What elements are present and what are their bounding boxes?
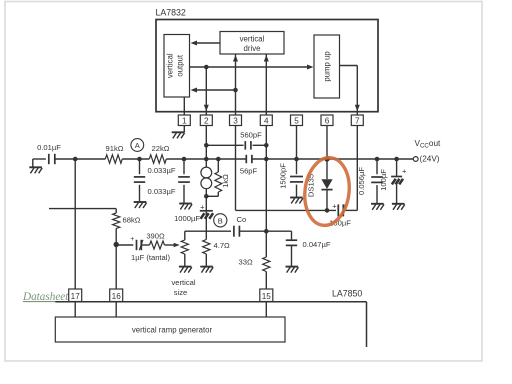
- pin 4 of LA7832: [260, 115, 272, 126]
- svg-text:100µF: 100µF: [379, 169, 388, 191]
- wire 22k to 56pF: [166, 158, 246, 160]
- junction at pin3 column: [233, 88, 238, 93]
- svg-text:pump up: pump up: [323, 51, 332, 82]
- svg-text:68kΩ: 68kΩ: [123, 216, 141, 225]
- wire 390 to wiper: [165, 244, 175, 246]
- arrow into pin 2: [204, 105, 209, 112]
- svg-text:4: 4: [264, 117, 269, 126]
- svg-text:LA7850: LA7850: [332, 289, 362, 299]
- svg-text:B: B: [218, 216, 223, 225]
- svg-text:vertical: vertical: [240, 35, 265, 44]
- junction pin6: [324, 156, 329, 161]
- svg-text:4.7Ω: 4.7Ω: [214, 241, 231, 250]
- svg-text:Co: Co: [237, 215, 247, 224]
- svg-text:1µF (tantal): 1µF (tantal): [131, 253, 170, 262]
- svg-text:size: size: [174, 288, 188, 297]
- junction 0.056uF: [375, 157, 380, 162]
- svg-text:+: +: [332, 201, 337, 210]
- pin 3 of LA7832: [230, 115, 242, 126]
- junction diode bottom: [325, 208, 330, 213]
- wire drive-to-output: [196, 42, 220, 44]
- svg-text:0.033µF: 0.033µF: [147, 166, 175, 175]
- svg-text:33Ω: 33Ω: [239, 258, 253, 267]
- svg-text:91kΩ: 91kΩ: [106, 144, 124, 153]
- svg-text:0.033µF: 0.033µF: [147, 187, 175, 196]
- svg-text:3: 3: [233, 117, 238, 126]
- junction 1k top: [216, 157, 221, 162]
- svg-text:2: 2: [204, 117, 209, 126]
- junction 68k bottom: [114, 242, 119, 247]
- svg-text:vertical: vertical: [171, 278, 195, 287]
- svg-text:vertical ramp generator: vertical ramp generator: [132, 326, 213, 335]
- capacitor 1500pF: [290, 177, 303, 182]
- wire 91k-22k: [122, 158, 149, 160]
- pin 6 of LA7832: [321, 115, 333, 126]
- svg-text:5: 5: [294, 117, 299, 126]
- node A: [131, 139, 144, 152]
- resistor 390Ω: [150, 241, 165, 249]
- wire pumpup to pin7: [340, 65, 358, 67]
- arrow into vertical drive from pin3: [233, 55, 238, 62]
- capacitor Co: [234, 226, 240, 237]
- junction pin4 on A-line: [264, 157, 269, 162]
- resistor 68kΩ: [113, 213, 120, 228]
- wire supply line: [252, 158, 413, 160]
- resistor 1kΩ: [217, 159, 219, 172]
- resistor 33Ω: [265, 231, 267, 257]
- svg-text:22kΩ: 22kΩ: [152, 144, 170, 153]
- wire A-node to pin17: [74, 159, 76, 289]
- capacitor 0.056uF: [376, 159, 378, 174]
- junction pin17 riser: [73, 157, 78, 162]
- svg-text:0.047µF: 0.047µF: [303, 240, 331, 249]
- ground at pin 1: [183, 126, 185, 133]
- svg-text:0.056µF: 0.056µF: [357, 167, 366, 195]
- svg-text:1kΩ: 1kΩ: [221, 174, 230, 188]
- terminal Vcc out: [413, 157, 418, 162]
- pin 7 of LA7832: [351, 115, 363, 126]
- IC U1 LA7832 outline: [156, 20, 378, 112]
- svg-text:LA7832: LA7832: [156, 8, 186, 18]
- pin 1 of LA7832: [178, 115, 190, 126]
- pin 17 of LA7850: [69, 289, 82, 302]
- wire pin4 down: [265, 126, 267, 232]
- inductor L1 coil: [205, 159, 207, 167]
- svg-text:1500pF: 1500pF: [279, 163, 288, 189]
- arrow into vertical output (bottom): [191, 88, 198, 93]
- capacitor 0.033uF (right): [183, 159, 185, 174]
- wire pin17 stub: [74, 302, 76, 318]
- wire pin3 internal: [235, 54, 237, 115]
- capacitor 0.047uF: [291, 231, 293, 240]
- junction at pin2 column: [204, 65, 209, 70]
- svg-text:1: 1: [182, 117, 187, 126]
- ground at input: [32, 159, 34, 167]
- resistor 91kΩ: [105, 155, 122, 163]
- capacitor 1000uF: [205, 196, 207, 231]
- arrow into vertical drive from pin4: [264, 55, 269, 62]
- svg-text:7: 7: [355, 117, 360, 126]
- capacitor 0.01uF: [49, 154, 55, 164]
- block vertical output: [164, 35, 190, 98]
- svg-text:+: +: [402, 167, 407, 176]
- arrow into vertical output (top): [191, 41, 198, 46]
- wire junction to pin16: [115, 245, 117, 290]
- wire output-to-pumpup: [190, 66, 309, 68]
- wire 1uF to 390: [141, 244, 149, 246]
- svg-text:vertical: vertical: [166, 53, 175, 78]
- arrow into pump up: [307, 65, 314, 70]
- junction 560pF right: [264, 143, 269, 148]
- arrow wiper into pot: [174, 243, 180, 248]
- svg-text:0.01µF: 0.01µF: [37, 143, 61, 152]
- pin 2 of LA7832: [200, 115, 212, 126]
- pin 5 of LA7832: [291, 115, 303, 126]
- resistor 22kΩ: [149, 155, 166, 163]
- svg-text:560pF: 560pF: [240, 130, 262, 139]
- wire B line right: [239, 230, 291, 232]
- pin 15 of LA7850: [260, 289, 273, 302]
- wire B line left: [185, 230, 231, 232]
- wire to node: [55, 158, 106, 160]
- svg-text:(24V): (24V): [420, 155, 440, 164]
- junction pin2 node: [204, 157, 209, 162]
- capacitor 100uF: [396, 159, 398, 176]
- wire pin5 down: [296, 126, 298, 175]
- svg-text:16: 16: [112, 292, 122, 301]
- wire pin4 internal: [265, 54, 267, 115]
- IC U2 LA7850 outline: [55, 301, 366, 303]
- wire 150uF to pin7 column: [343, 209, 357, 211]
- svg-text:+: +: [130, 236, 134, 243]
- svg-text:56pF: 56pF: [240, 167, 258, 176]
- wire input: [33, 158, 46, 160]
- svg-text:17: 17: [71, 292, 81, 301]
- junction 100uF: [394, 157, 399, 162]
- arrow into pin 7: [355, 105, 360, 112]
- svg-text:drive: drive: [244, 44, 261, 53]
- svg-text:6: 6: [325, 117, 330, 126]
- resistor 4.7Ω: [205, 231, 207, 239]
- junction 0.033uF right: [182, 157, 187, 162]
- wire to 1uF: [116, 244, 133, 246]
- wire pin15 stub: [265, 302, 267, 318]
- block pump up: [314, 35, 340, 98]
- junction coil/1k bottom: [204, 194, 209, 199]
- svg-text:15: 15: [262, 292, 272, 301]
- diode DS135: [321, 179, 332, 189]
- pin 16 of LA7850: [110, 289, 123, 302]
- wire pin2 down: [205, 126, 207, 160]
- highlight ellipse around DS135: [301, 155, 353, 228]
- wire feedback line: [196, 89, 236, 91]
- wire 68k top elbow: [49, 208, 116, 210]
- wire pin7 down: [356, 126, 358, 211]
- wire output block to pin1: [183, 97, 185, 115]
- wire pin16 stub: [115, 302, 117, 318]
- junction pin4/33 ohm: [264, 229, 269, 234]
- pot vertical size: [184, 231, 186, 240]
- wire pin6 down: [326, 126, 328, 180]
- svg-text:output: output: [176, 54, 185, 77]
- wire pin2 internal: [205, 67, 207, 115]
- svg-text:390Ω: 390Ω: [146, 231, 165, 240]
- junction pin5: [294, 157, 299, 162]
- junction 0.033uF left: [137, 157, 142, 162]
- capacitor 56pF: [246, 155, 252, 163]
- svg-text:1000µF: 1000µF: [174, 214, 200, 223]
- node B: [214, 214, 227, 227]
- capacitor 0.033uF (left): [139, 159, 141, 174]
- wire pin3 elbow to diode line: [236, 209, 337, 211]
- wire pin3 down: [235, 126, 237, 211]
- block vertical drive: [220, 32, 284, 55]
- block vertical ramp generator: [55, 317, 285, 342]
- junction 560pF left: [204, 143, 209, 148]
- capacitor 560pF line: [206, 144, 243, 146]
